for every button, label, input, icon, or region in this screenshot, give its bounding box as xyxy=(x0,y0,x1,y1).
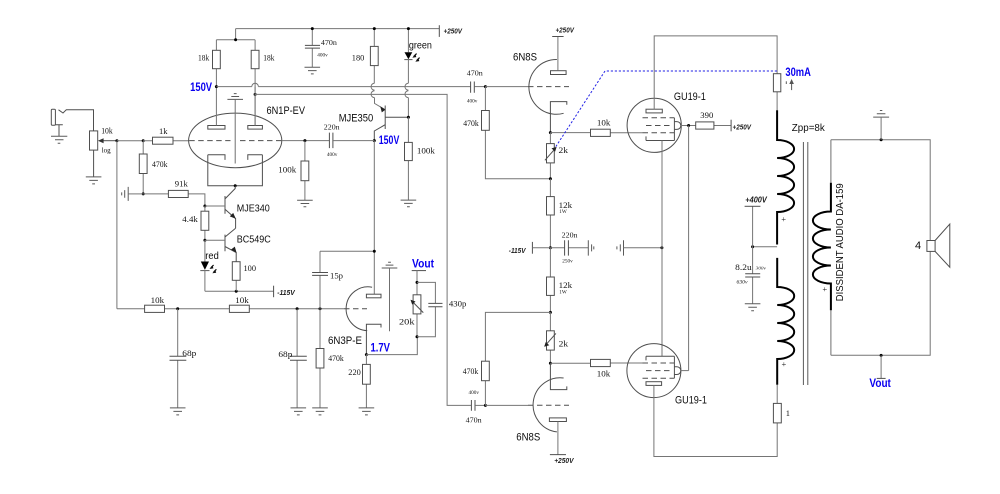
wire: G2 exit lower xyxy=(681,370,689,372)
wire: cathode to 20k bottom xyxy=(366,337,417,355)
capacitor 220n mid xyxy=(550,247,588,249)
terminal +400V xyxy=(752,206,754,247)
node: MJE350 base xyxy=(407,116,410,119)
resistor 100k (tube side) xyxy=(304,141,306,201)
capacitor 470n (upper coupling) xyxy=(471,82,475,93)
svg-text:400v: 400v xyxy=(469,391,480,396)
svg-text:390: 390 xyxy=(700,110,713,120)
resistor 470k (6N8S-low grid leak) xyxy=(485,312,550,405)
node: cathode 1.7V xyxy=(365,353,368,356)
node: 18k tie xyxy=(234,38,237,41)
node: cathode box bottom xyxy=(234,184,237,187)
sideways ground right of 220n xyxy=(588,240,594,255)
svg-text:470k: 470k xyxy=(152,159,168,169)
node: 150V anode node xyxy=(215,85,218,88)
svg-text:430p: 430p xyxy=(449,299,467,309)
resistor 4.4k xyxy=(204,206,206,240)
internal shield ground above 6N1P xyxy=(227,94,243,100)
tube GU19-1 lower envelope xyxy=(627,344,681,398)
node: 68p-1 tap xyxy=(176,307,179,310)
resistor 30mA sense xyxy=(776,92,778,111)
svg-text:180: 180 xyxy=(352,52,365,62)
terminal +250V G2 xyxy=(730,120,732,132)
svg-text:-115V: -115V xyxy=(277,288,295,297)
svg-text:68p: 68p xyxy=(182,348,196,358)
trimmer 2k lower xyxy=(549,312,551,363)
wire: 18k pair top tie xyxy=(216,29,255,40)
node: 100k-1 top xyxy=(303,139,306,142)
ground under pot xyxy=(86,177,102,184)
resistor 10k (GU19-up grid) xyxy=(610,132,642,134)
internal shield ground 6N3P xyxy=(382,262,398,268)
svg-text:GU19-1: GU19-1 xyxy=(675,394,707,406)
svg-text:+: + xyxy=(782,359,787,369)
capacitor 68p-2 xyxy=(296,309,298,408)
svg-text:68p: 68p xyxy=(278,349,292,359)
svg-text:+250V: +250V xyxy=(556,26,575,35)
trimmer 20k xyxy=(416,271,418,337)
node: 20k bottom xyxy=(416,335,419,338)
wire: feedback top run xyxy=(320,250,374,252)
anode lead GU19-up to transformer top xyxy=(654,36,777,109)
node: rail/green LED xyxy=(407,27,410,30)
anode lead left xyxy=(215,87,217,126)
ground under 220 xyxy=(359,408,375,415)
input jack J1 xyxy=(51,109,93,136)
current arrow annotation xyxy=(785,81,787,84)
center tap wire xyxy=(753,246,778,248)
tube GU19-1 upper envelope xyxy=(627,98,681,152)
svg-text:BC549C: BC549C xyxy=(237,234,271,246)
svg-text:4.4k: 4.4k xyxy=(182,214,198,224)
svg-text:10k: 10k xyxy=(597,118,611,128)
svg-text:400v: 400v xyxy=(327,153,338,158)
wire: grid drive lower to 10k xyxy=(550,362,590,364)
wire: collector down to 6N3P anode xyxy=(373,141,375,295)
cathode bracket 6N8S-low xyxy=(550,363,566,389)
svg-text:400v: 400v xyxy=(467,100,478,105)
transistor MJE350 xyxy=(374,106,408,141)
node: rail/180 xyxy=(373,27,376,30)
tube 6N8S upper envelope xyxy=(529,59,564,114)
LED red xyxy=(204,240,206,261)
svg-text:Zpp=8k: Zpp=8k xyxy=(792,122,826,134)
terminal +250V top xyxy=(438,25,440,37)
svg-text:300v: 300v xyxy=(756,266,767,271)
node: 2k-low / grid drive low xyxy=(549,362,552,365)
node: 12k-low bottom xyxy=(549,311,552,314)
terminal -115V left xyxy=(273,286,275,298)
svg-text:250v: 250v xyxy=(562,260,573,265)
svg-text:470n: 470n xyxy=(466,416,482,425)
resistor 10k rail-2 xyxy=(229,305,249,312)
svg-text:1: 1 xyxy=(786,408,790,418)
resistor 91k xyxy=(143,194,205,206)
node: Vout tap xyxy=(880,354,883,357)
resistor 100 xyxy=(235,280,237,291)
potentiometer 10k log xyxy=(90,131,117,177)
trimmer 2k upper xyxy=(549,133,551,179)
terminal Vout (6N3P) xyxy=(412,270,426,272)
anode bar GU19-up xyxy=(646,109,662,113)
terminal Vout bottom xyxy=(880,355,882,378)
node: 2k-up bottom xyxy=(549,177,552,180)
svg-text:MJE340: MJE340 xyxy=(237,203,270,215)
capacitor 15p in feedback branch xyxy=(319,251,321,308)
anode lead GU19-low to 1R xyxy=(654,385,777,456)
svg-text:2k: 2k xyxy=(559,145,569,155)
capacitor 470n (lower coupling) xyxy=(471,400,475,411)
svg-text:12k: 12k xyxy=(559,200,573,210)
node: cathode line ground tap xyxy=(660,246,663,249)
svg-text:10k: 10k xyxy=(597,368,611,378)
svg-text:630v: 630v xyxy=(737,281,749,286)
svg-text:+250V: +250V xyxy=(554,456,574,465)
wire: base340 xyxy=(205,205,225,207)
svg-text:-115V: -115V xyxy=(509,246,526,255)
capacitor 220n (interstage) xyxy=(329,133,333,149)
ground above secondary xyxy=(873,111,889,118)
svg-text:10k: 10k xyxy=(235,295,249,305)
svg-text:+250V: +250V xyxy=(733,123,752,132)
svg-text:6N8S: 6N8S xyxy=(513,51,537,63)
node: 470k bottom / 91k junction xyxy=(142,192,145,195)
node: wiper junction xyxy=(115,139,118,142)
node: -115V mid node xyxy=(549,246,552,249)
wire: G2 exit upper xyxy=(681,125,696,127)
LED red emission arrows xyxy=(211,265,217,272)
svg-text:+: + xyxy=(822,284,827,294)
anode bar 6N8S-up xyxy=(551,71,567,75)
ground under 8.2u xyxy=(745,304,761,311)
wire: grid2 run from tube to 220n xyxy=(282,140,330,142)
grid dashes 6N8S-up xyxy=(528,86,569,88)
svg-text:1W: 1W xyxy=(559,210,567,215)
node: rail/470n xyxy=(311,27,314,30)
resistor 10k rail-1 xyxy=(145,305,165,312)
svg-text:470k: 470k xyxy=(463,366,479,376)
svg-text:15p: 15p xyxy=(330,270,343,280)
wire: upper coupling run y86.6 with bump over x255 xyxy=(216,86,470,88)
svg-text:20k: 20k xyxy=(399,316,415,326)
wire: low grid into tube xyxy=(485,404,528,406)
svg-text:GU19-1: GU19-1 xyxy=(674,91,706,103)
svg-text:log: log xyxy=(102,146,111,155)
svg-text:100k: 100k xyxy=(417,145,436,155)
tube 6N1P-EV envelope xyxy=(189,113,282,168)
svg-text:220n: 220n xyxy=(562,231,578,240)
svg-text:4: 4 xyxy=(915,240,921,252)
resistor 12k upper xyxy=(549,179,551,248)
wire: bottom grid rail xyxy=(117,308,344,310)
capacitor 8.2u xyxy=(752,247,754,304)
wire: grid drive upper to 10k xyxy=(550,132,590,134)
grid rows GU19-low xyxy=(643,362,675,364)
cathode box 6N1P xyxy=(208,155,263,186)
svg-text:470n: 470n xyxy=(467,69,483,78)
node: MJE350 collector / 150V xyxy=(373,139,376,142)
svg-text:+400V: +400V xyxy=(745,196,767,205)
svg-text:10k: 10k xyxy=(101,125,113,135)
ground under 100k-1 xyxy=(297,200,313,207)
resistor 1k xyxy=(143,140,189,142)
wire: common cathode line xyxy=(661,141,663,357)
svg-text:6N3P-E: 6N3P-E xyxy=(328,335,362,347)
svg-text:150V: 150V xyxy=(190,82,212,94)
svg-text:green: green xyxy=(409,41,432,52)
cathode brackets 6N1P xyxy=(208,155,263,160)
node: Vout/20k top xyxy=(416,281,419,284)
svg-text:400v: 400v xyxy=(317,53,328,58)
ground under 68p-1 xyxy=(170,408,186,415)
svg-text:470k: 470k xyxy=(328,353,344,363)
wire: wiper to 1k node xyxy=(117,140,143,142)
svg-text:1k: 1k xyxy=(159,126,168,136)
capacitor 68p-1 xyxy=(177,309,179,408)
svg-text:30mA: 30mA xyxy=(785,67,811,79)
grid rows GU19-up xyxy=(643,117,675,119)
anode bar right triode xyxy=(248,126,263,130)
tube 6N8S lower envelope xyxy=(533,378,564,432)
svg-text:6N8S: 6N8S xyxy=(516,432,540,444)
anode lead and +250V terminal 6N8S-low xyxy=(557,422,559,455)
svg-text:18k: 18k xyxy=(263,52,275,62)
sideways ground left of 91k xyxy=(122,187,129,201)
svg-text:red: red xyxy=(205,251,219,262)
resistor 470k (6N3P grid) xyxy=(319,309,321,408)
node: anode/feedback junction xyxy=(373,250,376,253)
wire: lower coupling run y94.4 xyxy=(255,94,471,405)
grid dashes 6N3P xyxy=(344,308,367,310)
node: 100R bottom xyxy=(235,290,238,293)
node: 6N8S-up grid xyxy=(484,85,487,88)
node: 68p-2 tap xyxy=(296,307,299,310)
node: lower run start xyxy=(254,93,257,96)
resistor 100k (base side) xyxy=(407,117,409,200)
svg-text:100: 100 xyxy=(244,263,257,273)
ground under jack xyxy=(51,136,67,143)
resistor 18k left xyxy=(215,40,217,87)
resistor 10k (GU19-low grid) xyxy=(610,362,642,364)
svg-text:+250V: +250V xyxy=(444,26,463,35)
beam tab GU19-up xyxy=(674,122,680,130)
anode bar GU19-low xyxy=(646,382,662,386)
svg-text:Vout: Vout xyxy=(412,259,434,271)
wire: base549 xyxy=(205,239,225,241)
ground under 100k-2 xyxy=(401,200,417,207)
svg-text:91k: 91k xyxy=(175,179,189,189)
svg-text:220n: 220n xyxy=(324,122,340,131)
beam tab GU19-low xyxy=(674,367,680,375)
primary winding lower xyxy=(777,258,794,385)
svg-text:150V: 150V xyxy=(379,135,400,147)
svg-text:1.7V: 1.7V xyxy=(371,342,391,354)
resistor 390 xyxy=(714,125,731,127)
svg-text:Vout: Vout xyxy=(869,378,891,390)
tube 6N3P-E envelope xyxy=(346,287,372,331)
anode bar left triode xyxy=(208,126,225,130)
beam bar GU19-low xyxy=(673,356,675,378)
svg-text:DISSIDENT AUDIO DA-159: DISSIDENT AUDIO DA-159 xyxy=(835,183,846,301)
resistor 18k right xyxy=(254,40,256,51)
node: MJE340 base xyxy=(203,205,206,208)
secondary winding xyxy=(830,140,832,355)
wire: left long vertical to bottom rail xyxy=(116,141,118,309)
LED green xyxy=(407,29,409,53)
cathode bracket 6N3P xyxy=(366,324,381,354)
anode lead right xyxy=(254,69,256,126)
node: center tap xyxy=(751,245,754,248)
resistor 470k (input) xyxy=(142,141,144,194)
node: 15p/470k tap xyxy=(319,307,322,310)
wire: -115V row xyxy=(205,290,274,292)
wire: secondary loop xyxy=(831,140,930,355)
resistor 220 xyxy=(365,355,367,408)
transistor MJE340 xyxy=(225,186,236,229)
primary winding upper xyxy=(777,110,794,244)
capacitor 470n (top filter) xyxy=(311,29,313,68)
ground under 470k xyxy=(312,408,328,415)
resistor 1 (cathode sense) xyxy=(776,385,778,404)
svg-text:6N1P-EV: 6N1P-EV xyxy=(267,105,306,117)
svg-text:12k: 12k xyxy=(559,280,573,290)
wire: +250V top rail xyxy=(236,28,440,30)
cathode GU19-low xyxy=(646,356,674,360)
terminal -115V mid xyxy=(531,242,533,254)
node: 6N8S-up cathode / grid drive xyxy=(549,131,552,134)
transistor BC549C xyxy=(225,228,237,261)
svg-text:MJE350: MJE350 xyxy=(339,112,374,124)
wire: green LED to base node with hops xyxy=(405,83,408,117)
node: G2 tie upper xyxy=(687,124,690,127)
cathode GU19-up xyxy=(646,136,674,140)
transformer core xyxy=(803,142,807,385)
svg-text:100k: 100k xyxy=(278,164,297,174)
svg-text:10k: 10k xyxy=(151,295,165,305)
anode lead and +250V terminal 6N8S-up xyxy=(557,37,559,71)
beam bar GU19-up xyxy=(673,118,675,141)
LED green emission arrows xyxy=(414,54,420,61)
svg-text:18k: 18k xyxy=(198,52,210,62)
svg-text:220: 220 xyxy=(348,367,361,377)
svg-text:1W: 1W xyxy=(559,290,567,295)
grid dashes 6N8S-low xyxy=(528,404,569,406)
sideways ground before cathode line xyxy=(617,240,624,255)
wire: G2 tie vertical xyxy=(688,126,690,371)
svg-text:2k: 2k xyxy=(559,339,569,349)
node: BC549C base xyxy=(203,239,206,242)
resistor 180 xyxy=(373,29,375,84)
resistor 12k lower xyxy=(549,248,551,313)
ground under 470n top xyxy=(305,67,321,74)
blue dashed annotation 30mA-2k xyxy=(555,71,777,148)
resistor 470k (6N8S-up grid leak) xyxy=(485,87,550,179)
svg-text:8.2u: 8.2u xyxy=(735,262,752,272)
capacitor 430p branch xyxy=(417,282,435,336)
node: 1k/470k junction xyxy=(142,139,145,142)
node: 6N8S-low grid xyxy=(484,404,487,407)
anode bar 6N3P xyxy=(366,294,381,298)
wire: grid into tube xyxy=(485,86,528,88)
cathode bracket 6N8S-up xyxy=(550,102,566,133)
svg-text:470n: 470n xyxy=(321,38,337,47)
ground under 68p-2 xyxy=(291,408,307,415)
svg-text:+: + xyxy=(781,214,786,224)
wire: 180 to MJE350 emitter with hops xyxy=(371,83,385,110)
node: secondary ground tap xyxy=(880,138,883,141)
anode bar 6N8S-low xyxy=(549,418,566,422)
grid dashes 6N1P xyxy=(189,140,282,142)
svg-text:470k: 470k xyxy=(463,118,479,128)
speaker xyxy=(927,241,935,252)
